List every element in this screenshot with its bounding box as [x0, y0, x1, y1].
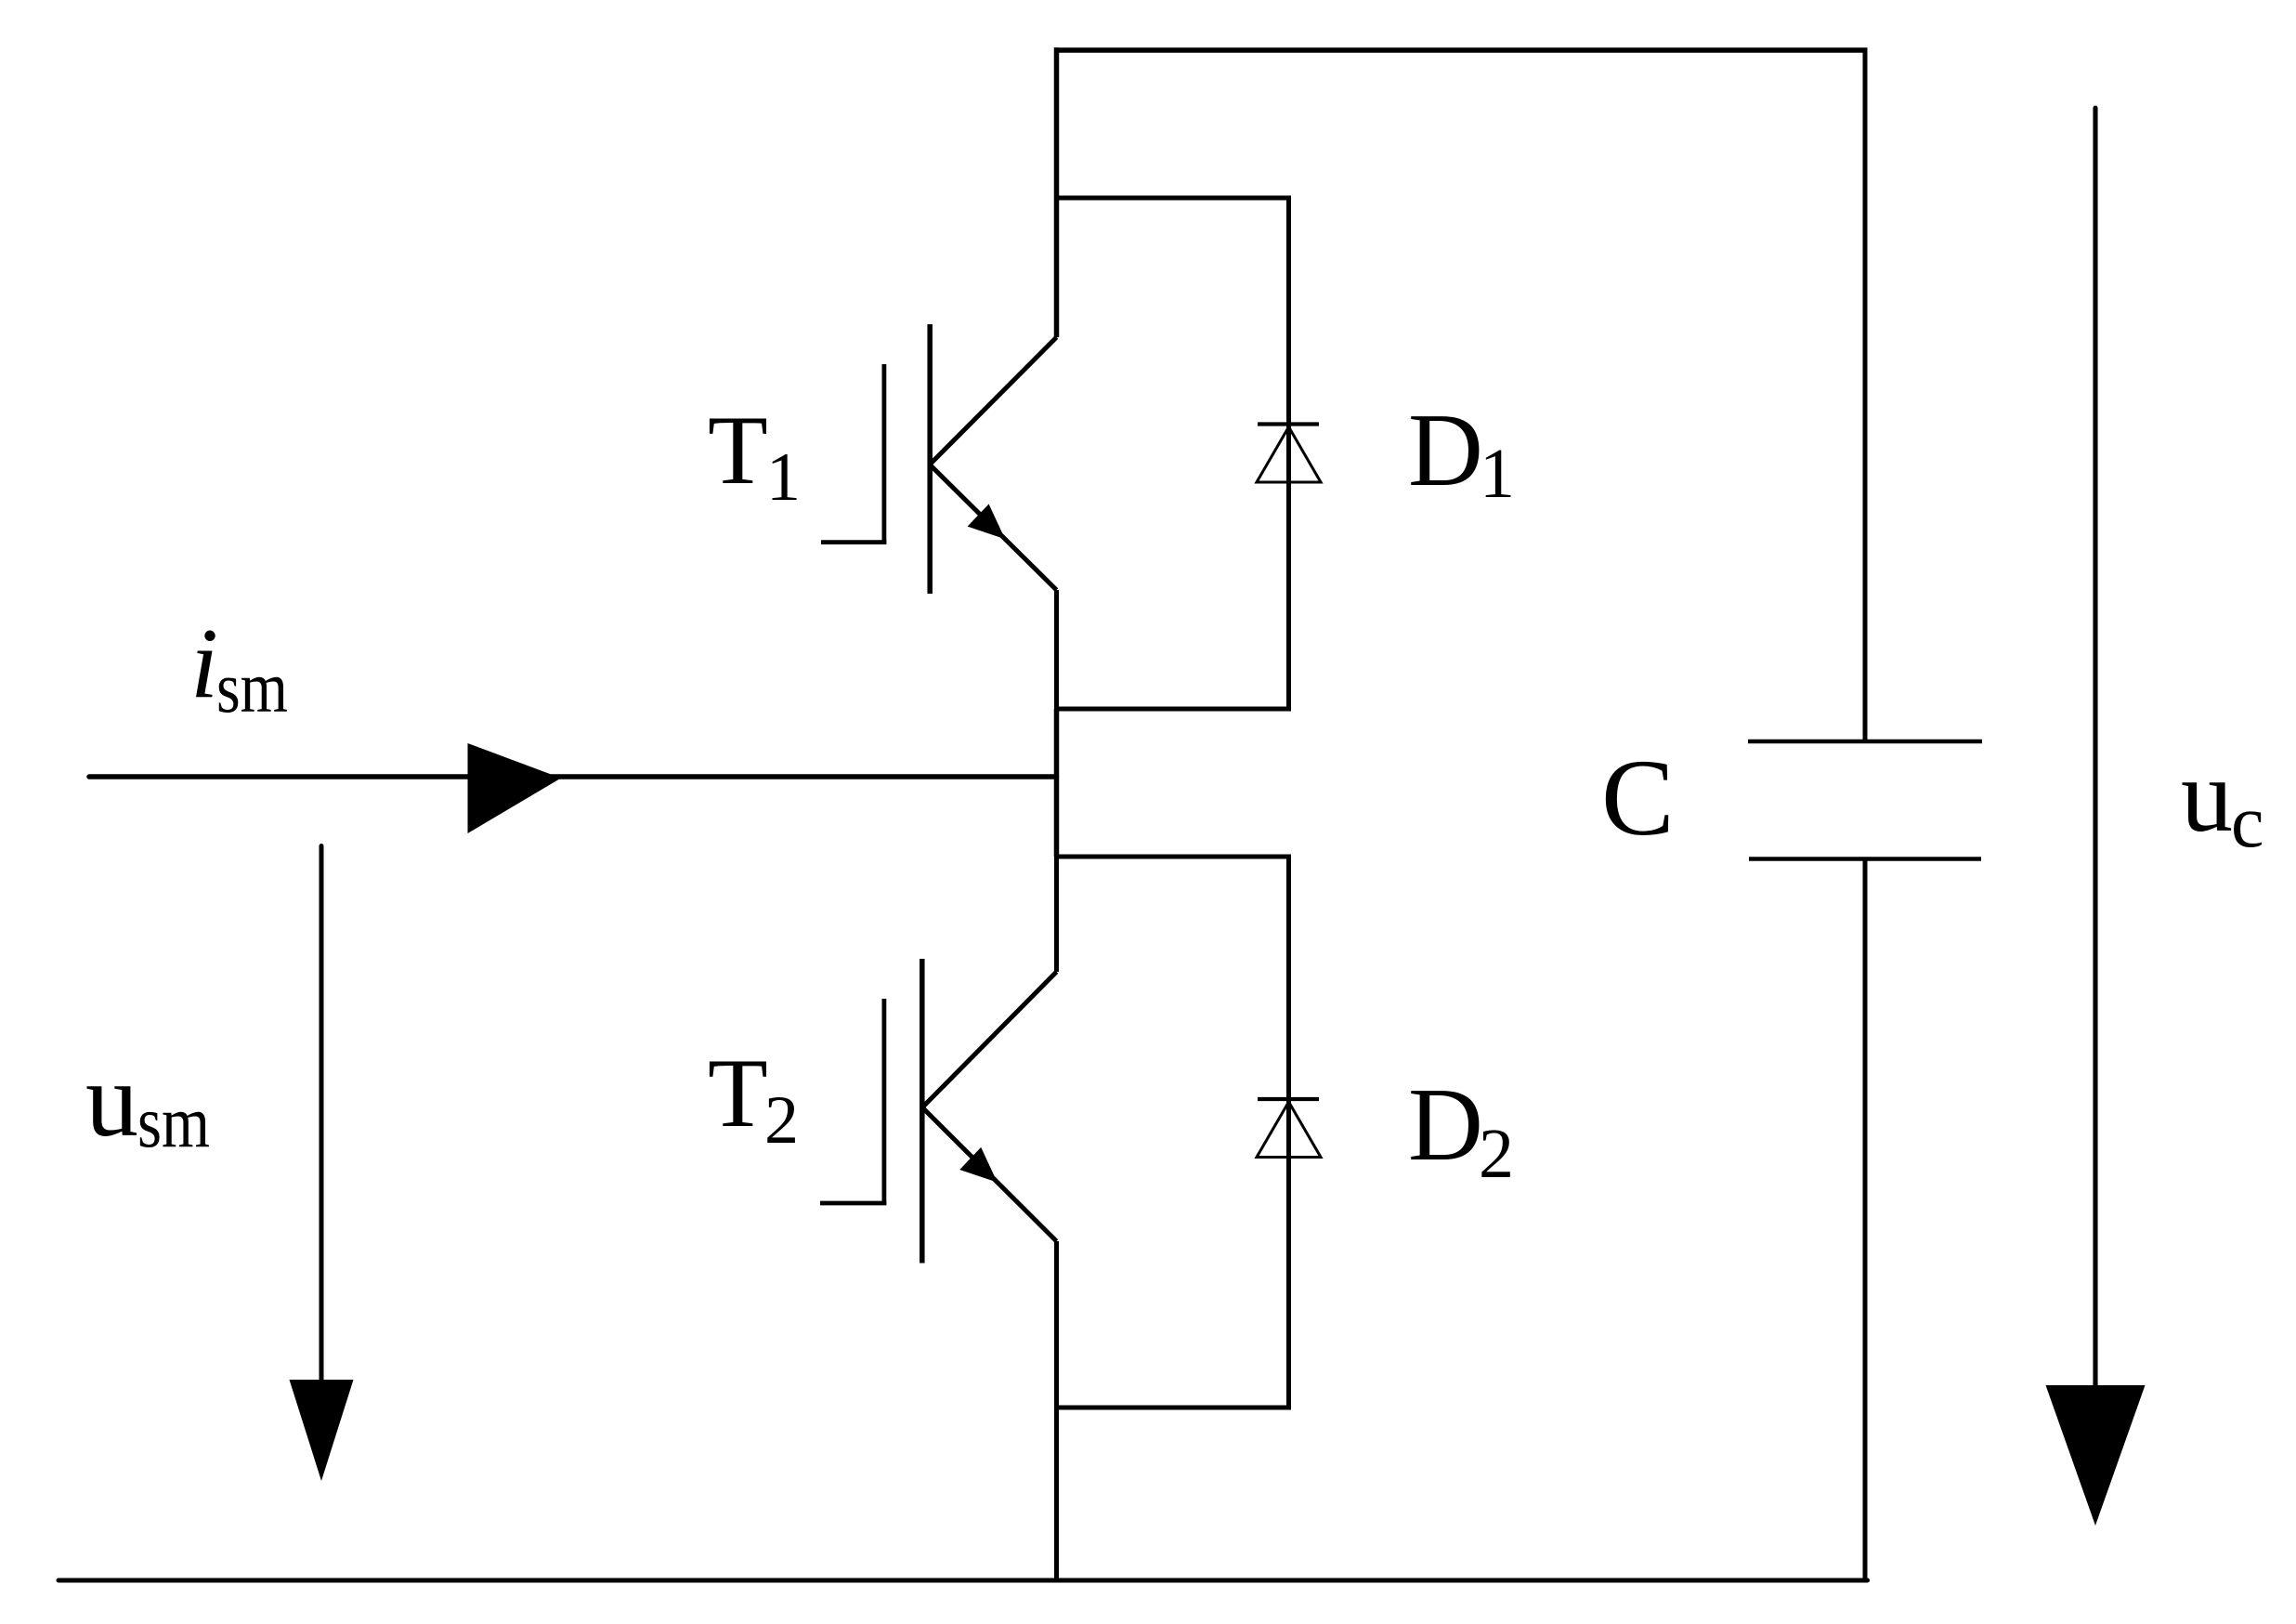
wire: T1/D1 loop bottom	[1054, 707, 1291, 712]
diode D1	[1257, 198, 1321, 709]
label u_c	[2181, 739, 2264, 863]
svg-text:C: C	[1601, 737, 1675, 858]
svg-text:sm: sm	[137, 1082, 210, 1163]
svg-text:D: D	[1408, 1067, 1483, 1183]
svg-text:u: u	[2181, 739, 2233, 854]
wire: right branch lower (capacitor to bottom rail)	[1863, 859, 1868, 1583]
wire: midpoint junction vertical (T1 emitter to T2 collector)	[1054, 709, 1060, 857]
label u_sm	[85, 1041, 210, 1163]
wire: input lead i_sm	[89, 774, 1057, 779]
wire: T2/D2 loop bottom	[1054, 1406, 1291, 1410]
svg-text:D: D	[1408, 393, 1483, 508]
arrow: u_c voltage reference	[2046, 108, 2146, 1526]
wire: T1 collector drop from top rail	[1054, 47, 1060, 198]
svg-text:2: 2	[1479, 1115, 1514, 1193]
arrow: i_sm current direction arrowhead	[468, 743, 562, 833]
svg-text:2: 2	[764, 1082, 799, 1159]
arrow: u_sm voltage reference	[290, 846, 354, 1482]
label D2	[1408, 1067, 1514, 1193]
label D1	[1408, 393, 1515, 513]
wire: bottom rail	[59, 1578, 1868, 1583]
label i_sm	[190, 609, 288, 727]
svg-text:i: i	[190, 609, 218, 719]
diode D2	[1257, 857, 1321, 1408]
label T1	[708, 396, 801, 516]
svg-text:T: T	[708, 396, 768, 504]
wire: right branch upper (to capacitor)	[1863, 50, 1868, 741]
svg-text:1: 1	[1480, 435, 1515, 513]
wire: bottom vertical (T2 emitter to bottom rail)	[1054, 1408, 1059, 1583]
svg-text:sm: sm	[216, 647, 288, 727]
wire: T1/D1 loop top	[1054, 196, 1291, 201]
wire: top rail	[1054, 47, 1868, 53]
transistor T1 (IGBT)	[821, 198, 1057, 709]
svg-text:u: u	[85, 1041, 138, 1159]
svg-text:T: T	[708, 1039, 768, 1147]
transistor T2 (IGBT)	[820, 857, 1057, 1408]
svg-text:1: 1	[766, 439, 801, 516]
capacitor C	[1748, 741, 1982, 859]
svg-text:c: c	[2231, 781, 2264, 863]
label T2	[708, 1039, 799, 1159]
wire: T2/D2 loop top	[1054, 855, 1291, 859]
